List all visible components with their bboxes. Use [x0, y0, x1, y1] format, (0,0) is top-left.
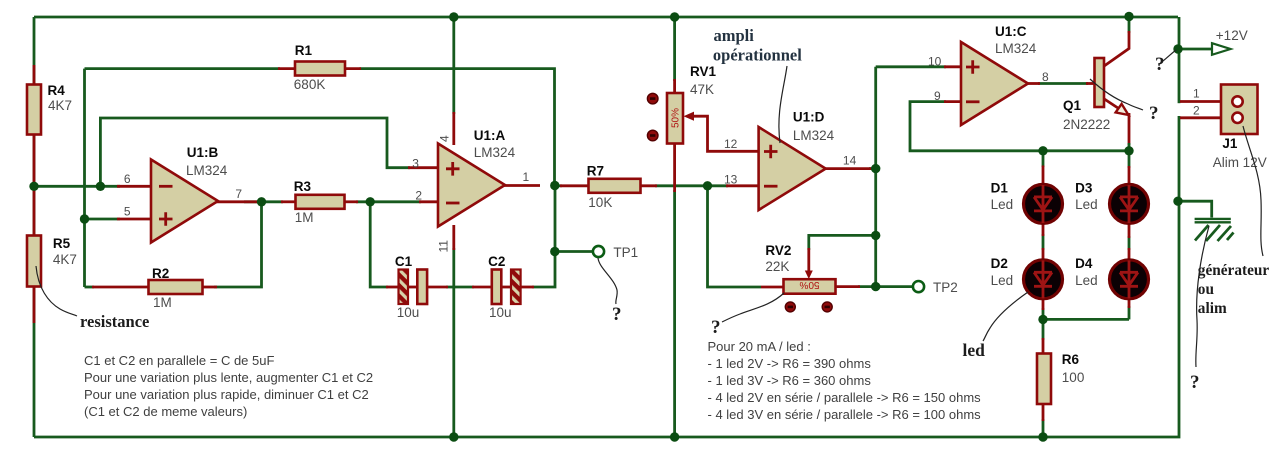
svg-text:R4: R4 [48, 83, 66, 98]
svg-text:Led: Led [1075, 197, 1098, 212]
svg-text:TP2: TP2 [933, 280, 958, 295]
svg-text:R7: R7 [587, 164, 604, 179]
svg-text:1: 1 [1193, 87, 1200, 101]
svg-text:générateur: générateur [1198, 262, 1270, 279]
svg-text:RV1: RV1 [690, 64, 717, 79]
svg-text:U1:B: U1:B [187, 145, 219, 160]
svg-text:22K: 22K [765, 259, 789, 274]
svg-text:LM324: LM324 [793, 128, 835, 143]
svg-text:J1: J1 [1222, 136, 1238, 151]
svg-text:ou: ou [1198, 281, 1215, 298]
svg-text:?: ? [1155, 54, 1165, 75]
svg-text:3: 3 [412, 157, 419, 171]
svg-text:2: 2 [415, 189, 422, 203]
svg-text:Alim 12V: Alim 12V [1213, 155, 1267, 170]
svg-text:50%: 50% [799, 279, 819, 290]
svg-text:13: 13 [724, 173, 738, 187]
svg-text:1: 1 [523, 170, 530, 184]
svg-text:C1 et C2 en parallele = C de 5: C1 et C2 en parallele = C de 5uF [84, 353, 274, 368]
svg-text:LM324: LM324 [995, 41, 1037, 56]
svg-text:4: 4 [438, 135, 452, 142]
svg-text:led: led [963, 340, 986, 360]
svg-text:U1:C: U1:C [995, 24, 1027, 39]
svg-text:50%: 50% [671, 108, 682, 128]
svg-text:2N2222: 2N2222 [1063, 117, 1110, 132]
svg-text:2: 2 [1193, 104, 1200, 118]
svg-text:10: 10 [928, 55, 942, 69]
svg-text:Led: Led [1075, 273, 1098, 288]
svg-text:RV2: RV2 [765, 243, 791, 258]
svg-text:(C1 et C2 de meme valeurs): (C1 et C2 de meme valeurs) [84, 404, 247, 419]
svg-text:R3: R3 [294, 179, 312, 194]
svg-text:D3: D3 [1075, 180, 1093, 195]
svg-text:Pour 20 mA / led :: Pour 20 mA / led : [708, 339, 811, 354]
svg-text:LM324: LM324 [186, 163, 228, 178]
svg-text:C2: C2 [488, 254, 505, 269]
svg-text:14: 14 [843, 153, 857, 167]
svg-text:R1: R1 [295, 43, 313, 58]
svg-text:680K: 680K [294, 77, 326, 92]
svg-text:9: 9 [934, 89, 941, 103]
svg-text:10K: 10K [588, 195, 612, 210]
svg-text:Led: Led [991, 273, 1014, 288]
svg-text:?: ? [612, 304, 622, 325]
svg-text:R5: R5 [53, 236, 71, 251]
svg-text:- 4 led 3V en série / parallel: - 4 led 3V en série / parallele -> R6 = … [708, 407, 982, 422]
svg-text:D1: D1 [991, 180, 1009, 195]
svg-text:5: 5 [124, 204, 131, 218]
svg-text:+12V: +12V [1216, 28, 1248, 43]
svg-text:R6: R6 [1062, 352, 1080, 367]
svg-text:D2: D2 [991, 256, 1008, 271]
svg-text:U1:A: U1:A [474, 128, 506, 143]
svg-text:1M: 1M [153, 295, 172, 310]
svg-text:- 1 led 2V -> R6 = 390 ohms: - 1 led 2V -> R6 = 390 ohms [708, 356, 872, 371]
svg-text:opérationnel: opérationnel [713, 46, 802, 65]
svg-text:10u: 10u [397, 305, 420, 320]
svg-text:alim: alim [1198, 300, 1227, 317]
svg-text:Pour une variation plus rapide: Pour une variation plus rapide, diminuer… [84, 387, 369, 402]
svg-text:4K7: 4K7 [53, 252, 77, 267]
svg-text:TP1: TP1 [613, 245, 638, 260]
svg-text:4K7: 4K7 [48, 98, 72, 113]
svg-text:U1:D: U1:D [793, 109, 825, 124]
svg-text:Pour une variation plus lente,: Pour une variation plus lente, augmenter… [84, 370, 373, 385]
svg-text:10u: 10u [489, 305, 512, 320]
svg-text:?: ? [1190, 372, 1200, 393]
svg-text:D4: D4 [1075, 256, 1093, 271]
svg-text:100: 100 [1062, 370, 1085, 385]
svg-text:?: ? [711, 317, 721, 338]
svg-text:C1: C1 [395, 254, 413, 269]
svg-text:11: 11 [437, 240, 451, 253]
svg-text:LM324: LM324 [474, 145, 516, 160]
svg-text:R2: R2 [152, 266, 169, 281]
svg-text:ampli: ampli [714, 26, 755, 45]
svg-text:6: 6 [124, 172, 131, 186]
svg-text:- 4 led 2V en série / parallel: - 4 led 2V en série / parallele -> R6 = … [708, 390, 982, 405]
svg-text:Led: Led [991, 197, 1014, 212]
svg-text:1M: 1M [295, 210, 314, 225]
svg-text:8: 8 [1042, 70, 1049, 84]
svg-text:12: 12 [724, 137, 738, 151]
svg-text:resistance: resistance [80, 312, 149, 331]
svg-text:7: 7 [235, 187, 242, 201]
svg-text:?: ? [1149, 103, 1159, 124]
svg-text:47K: 47K [690, 82, 714, 97]
svg-text:Q1: Q1 [1063, 98, 1082, 113]
svg-text:- 1 led 3V -> R6 = 360 ohms: - 1 led 3V -> R6 = 360 ohms [708, 373, 872, 388]
